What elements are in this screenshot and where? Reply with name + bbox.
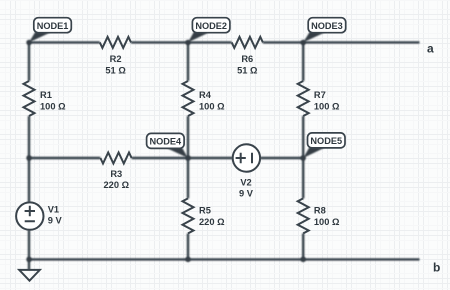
svg-text:NODE3: NODE3 bbox=[311, 21, 343, 31]
wire right rail: NODE5 down to R8 bbox=[302, 158, 304, 198]
svg-text:V1: V1 bbox=[48, 204, 59, 214]
svg-text:R6: R6 bbox=[241, 54, 253, 64]
svg-text:9 V: 9 V bbox=[48, 216, 63, 226]
junction NODE1 bbox=[26, 40, 31, 45]
junction NODE4 bbox=[185, 155, 190, 160]
svg-text:b: b bbox=[433, 261, 440, 275]
node label NODE3 bbox=[303, 18, 346, 43]
svg-text:NODE5: NODE5 bbox=[310, 136, 342, 146]
resistor R8 bbox=[298, 198, 309, 233]
svg-text:NODE1: NODE1 bbox=[37, 21, 69, 31]
wire top: NODE1 to R2 bbox=[29, 41, 100, 43]
wire left rail: R1 to V1 bbox=[28, 116, 30, 202]
resistor R1 bbox=[24, 81, 35, 116]
wire top: R6 to terminal a bbox=[263, 41, 420, 43]
svg-text:R1: R1 bbox=[40, 90, 52, 100]
resistor R7 bbox=[298, 81, 309, 116]
wire bottom: ground rail to terminal b bbox=[29, 258, 420, 260]
wire ground stub bbox=[28, 259, 30, 270]
wire top: R2 to R6 through NODE2 bbox=[131, 41, 232, 43]
wire right rail: R7 to NODE5 bbox=[302, 116, 304, 158]
svg-text:V2: V2 bbox=[240, 177, 251, 187]
junction NODE3 bbox=[301, 40, 306, 45]
wire right rail: R8 to bottom bbox=[302, 233, 304, 259]
svg-text:100 Ω: 100 Ω bbox=[314, 217, 340, 227]
node label NODE1 bbox=[29, 18, 71, 43]
wire mid row: left rail to R3 bbox=[29, 157, 100, 159]
voltage source V1 bbox=[16, 202, 43, 229]
junction bottom-mid bbox=[185, 257, 190, 262]
svg-text:R8: R8 bbox=[314, 206, 326, 216]
resistor R4 bbox=[183, 81, 194, 116]
ground bbox=[19, 270, 40, 281]
resistor R2 bbox=[100, 37, 131, 48]
svg-text:220 Ω: 220 Ω bbox=[104, 180, 130, 190]
wire mid rail: NODE2 down to R4 bbox=[187, 42, 189, 81]
wire left rail: V1 to bottom bbox=[28, 230, 30, 260]
svg-text:R2: R2 bbox=[110, 54, 122, 64]
junction bottom-left bbox=[26, 257, 31, 262]
wire right rail: NODE3 down to R7 bbox=[302, 42, 304, 81]
svg-text:R3: R3 bbox=[110, 169, 122, 179]
junction bottom-right bbox=[301, 257, 306, 262]
junction NODE2 bbox=[185, 40, 190, 45]
wire mid row: V2 to NODE5 bbox=[260, 157, 303, 159]
wire mid row: R3 to V2 through NODE4 bbox=[132, 157, 233, 159]
voltage source V2 bbox=[233, 144, 260, 171]
svg-text:R5: R5 bbox=[199, 206, 211, 216]
svg-text:a: a bbox=[427, 41, 434, 55]
node label NODE5 bbox=[303, 133, 345, 158]
resistor R6 bbox=[232, 37, 263, 48]
svg-text:100 Ω: 100 Ω bbox=[40, 102, 66, 112]
resistor R5 bbox=[183, 198, 194, 233]
svg-text:220 Ω: 220 Ω bbox=[199, 217, 225, 227]
svg-text:NODE4: NODE4 bbox=[150, 137, 183, 147]
node label NODE2 bbox=[188, 18, 230, 43]
svg-text:100 Ω: 100 Ω bbox=[314, 102, 340, 112]
svg-text:NODE2: NODE2 bbox=[195, 21, 227, 31]
svg-text:51 Ω: 51 Ω bbox=[105, 65, 126, 75]
resistor R3 bbox=[100, 153, 131, 164]
svg-text:100 Ω: 100 Ω bbox=[199, 102, 225, 112]
svg-text:9 V: 9 V bbox=[239, 188, 254, 198]
svg-text:R7: R7 bbox=[314, 90, 326, 100]
junction mid-left bbox=[26, 155, 31, 160]
svg-text:R4: R4 bbox=[199, 90, 212, 100]
junction NODE5 bbox=[301, 155, 306, 160]
wire mid rail: R4 to NODE4 bbox=[187, 116, 189, 158]
wire left rail: NODE1 down to R1 bbox=[28, 42, 30, 81]
wire mid rail: R5 to bottom bbox=[187, 233, 189, 259]
wire mid rail: NODE4 down to R5 bbox=[187, 158, 189, 198]
svg-text:51 Ω: 51 Ω bbox=[237, 65, 258, 75]
node label NODE4 bbox=[147, 133, 188, 158]
